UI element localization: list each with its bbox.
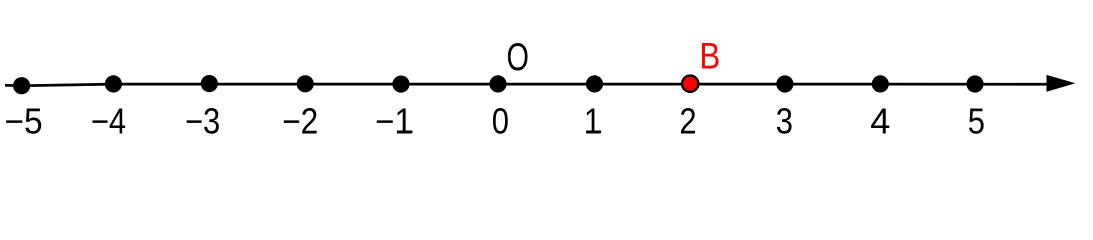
svg-text:−5: −5 [4, 102, 42, 141]
svg-text:0: 0 [492, 102, 509, 142]
svg-text:3: 3 [776, 102, 793, 142]
svg-text:4: 4 [870, 101, 890, 142]
svg-text:−2: −2 [282, 102, 318, 142]
svg-text:O: O [506, 36, 528, 79]
svg-text:5: 5 [968, 102, 985, 142]
svg-text:−3: −3 [185, 102, 220, 142]
svg-text:2: 2 [679, 102, 696, 142]
svg-text:−4: −4 [91, 102, 126, 142]
svg-text:B: B [700, 36, 721, 77]
svg-text:1: 1 [584, 102, 601, 142]
svg-text:−1: −1 [375, 102, 413, 142]
